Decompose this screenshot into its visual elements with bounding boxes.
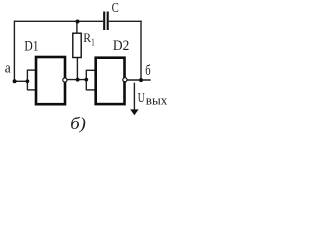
svg-text:C: C bbox=[112, 1, 119, 16]
wire right vertical (C to output) bbox=[140, 21, 142, 80]
wire top rail right segment bbox=[109, 20, 142, 22]
wire D1 output to D2 bbox=[67, 79, 86, 81]
wire R1 top lead bbox=[76, 22, 78, 33]
op-amp/gate D2 body bbox=[96, 58, 125, 104]
wire left vertical (node a feed) bbox=[13, 21, 15, 82]
wire Uout tap vertical bbox=[133, 83, 135, 110]
resistor R1 body bbox=[73, 33, 81, 57]
svg-text:U: U bbox=[138, 90, 145, 105]
capacitor C plates bbox=[104, 12, 108, 31]
D1 inversion bubble bbox=[63, 78, 67, 82]
svg-text:D2: D2 bbox=[113, 38, 129, 54]
junction D2 input tie bbox=[84, 78, 88, 82]
wire input a horizontal bbox=[14, 80, 27, 82]
node a corner junction bbox=[13, 79, 17, 83]
D2 inversion bubble bbox=[123, 78, 127, 82]
junction output node b bbox=[139, 78, 143, 82]
wire D1 input stub pin 1 bbox=[27, 69, 36, 71]
Uout arrowhead bbox=[130, 109, 138, 115]
svg-text:R: R bbox=[83, 30, 91, 45]
wire D1 input stub pin 2 bbox=[27, 89, 36, 91]
junction D1 input tie bbox=[26, 79, 30, 83]
wire D2 input stub pin 1 bbox=[86, 69, 95, 71]
junction R1 bottom bbox=[76, 78, 80, 82]
wire R1 bottom lead bbox=[76, 58, 78, 79]
svg-text:вых: вых bbox=[146, 94, 168, 108]
wire D1 input tie vertical bbox=[26, 70, 28, 91]
svg-text:б: б bbox=[145, 63, 151, 79]
wire D2 input tie vertical bbox=[85, 70, 87, 91]
svg-text:D1: D1 bbox=[24, 38, 38, 54]
op-amp/gate D1 body bbox=[36, 57, 65, 104]
svg-text:б): б) bbox=[70, 114, 86, 133]
junction R1 top rail bbox=[76, 20, 80, 24]
wire D2 input stub pin 2 bbox=[86, 89, 95, 91]
svg-text:a: a bbox=[5, 61, 11, 77]
wire output node b horizontal bbox=[127, 79, 151, 81]
svg-text:1: 1 bbox=[91, 36, 94, 48]
wire top rail left segment bbox=[14, 20, 103, 22]
